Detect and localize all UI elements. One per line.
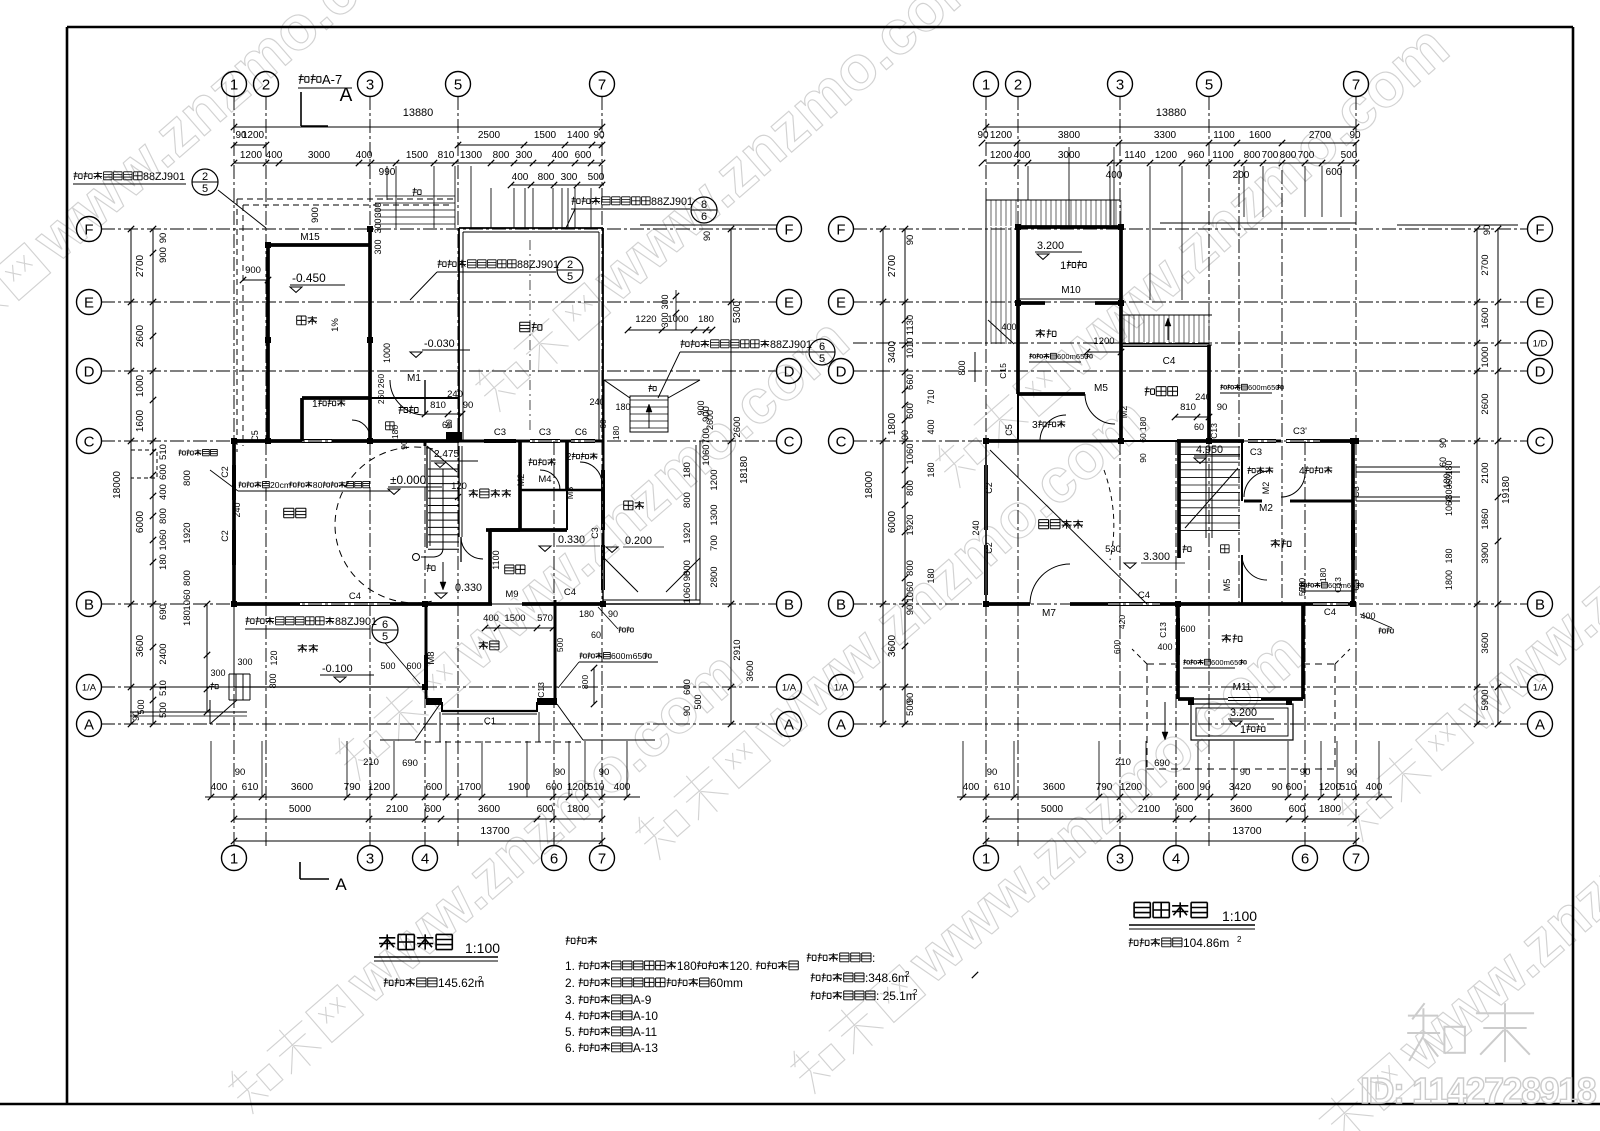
svg-text:500: 500 bbox=[555, 638, 565, 652]
svg-text:1/A: 1/A bbox=[782, 683, 797, 694]
svg-text:600m650: 600m650 bbox=[611, 651, 647, 661]
svg-text:400: 400 bbox=[266, 150, 283, 161]
svg-text:600: 600 bbox=[1112, 640, 1122, 654]
svg-text:300: 300 bbox=[516, 150, 533, 161]
svg-text:4.950: 4.950 bbox=[1196, 444, 1223, 456]
svg-text:B: B bbox=[1535, 596, 1545, 613]
svg-text:1010: 1010 bbox=[905, 337, 916, 358]
svg-text:800: 800 bbox=[182, 570, 193, 586]
svg-text:400: 400 bbox=[356, 150, 373, 161]
svg-text:88ZJ901: 88ZJ901 bbox=[517, 259, 559, 271]
svg-text:C: C bbox=[784, 433, 795, 450]
svg-text:420: 420 bbox=[1117, 615, 1127, 629]
svg-text:6: 6 bbox=[382, 619, 388, 631]
svg-text:5: 5 bbox=[819, 353, 825, 365]
svg-text:6: 6 bbox=[550, 850, 558, 867]
svg-text:3400: 3400 bbox=[887, 340, 898, 363]
svg-text:1300: 1300 bbox=[709, 504, 720, 525]
svg-text:0.330: 0.330 bbox=[455, 582, 482, 594]
svg-text:500: 500 bbox=[588, 172, 605, 183]
svg-text:600m650: 600m650 bbox=[1211, 658, 1242, 667]
svg-text:500: 500 bbox=[693, 694, 703, 709]
svg-text:D: D bbox=[836, 363, 847, 380]
svg-text:4: 4 bbox=[1172, 850, 1180, 867]
svg-text:C4: C4 bbox=[564, 587, 576, 598]
svg-text:M5: M5 bbox=[1222, 579, 1232, 592]
svg-text:2700: 2700 bbox=[887, 254, 898, 277]
svg-text:90: 90 bbox=[1349, 130, 1361, 141]
svg-text:1220: 1220 bbox=[635, 314, 656, 325]
svg-text:1060: 1060 bbox=[158, 529, 169, 550]
svg-text:1200: 1200 bbox=[242, 130, 265, 141]
svg-text:3: 3 bbox=[1116, 850, 1124, 867]
svg-text:C13: C13 bbox=[1333, 577, 1343, 593]
svg-text:0.330: 0.330 bbox=[558, 534, 585, 546]
svg-text:M4: M4 bbox=[538, 474, 551, 485]
svg-text:90: 90 bbox=[1347, 767, 1358, 778]
svg-text:60: 60 bbox=[1438, 457, 1448, 467]
svg-text:500: 500 bbox=[380, 661, 395, 671]
svg-text:1: 1 bbox=[1060, 260, 1066, 272]
svg-text:D: D bbox=[1535, 363, 1546, 380]
svg-text:3.: 3. bbox=[565, 993, 575, 1007]
svg-text:210: 210 bbox=[363, 757, 379, 768]
svg-text:400: 400 bbox=[963, 782, 980, 793]
svg-text:1200: 1200 bbox=[368, 782, 391, 793]
svg-text:2100: 2100 bbox=[1480, 462, 1491, 483]
svg-text:3420: 3420 bbox=[1229, 782, 1252, 793]
svg-text:C: C bbox=[1535, 433, 1546, 450]
svg-text:5: 5 bbox=[567, 271, 573, 283]
svg-text:2: 2 bbox=[913, 988, 918, 997]
svg-text:C: C bbox=[836, 433, 847, 450]
svg-text:1200: 1200 bbox=[1120, 782, 1143, 793]
svg-text:1060: 1060 bbox=[905, 581, 916, 602]
svg-text:13700: 13700 bbox=[1232, 825, 1261, 837]
svg-text:2600: 2600 bbox=[705, 410, 715, 430]
svg-text:3900: 3900 bbox=[1480, 542, 1491, 563]
svg-text:6: 6 bbox=[1301, 850, 1309, 867]
svg-text:3.300: 3.300 bbox=[1143, 551, 1170, 563]
svg-text:1: 1 bbox=[312, 399, 318, 410]
svg-text:2: 2 bbox=[478, 975, 483, 984]
svg-text:1300: 1300 bbox=[460, 150, 483, 161]
svg-text:M1: M1 bbox=[407, 373, 421, 384]
svg-text:600: 600 bbox=[537, 804, 554, 815]
svg-text:610: 610 bbox=[242, 782, 259, 793]
svg-text:1200: 1200 bbox=[990, 130, 1013, 141]
svg-text:2500: 2500 bbox=[478, 130, 501, 141]
svg-text:3800: 3800 bbox=[1058, 130, 1081, 141]
svg-text:790: 790 bbox=[1096, 782, 1113, 793]
svg-text:13880: 13880 bbox=[403, 107, 434, 119]
svg-text:88ZJ901: 88ZJ901 bbox=[770, 339, 812, 351]
svg-text:400: 400 bbox=[614, 782, 631, 793]
svg-text:±0.000: ±0.000 bbox=[390, 473, 427, 487]
svg-text:1600: 1600 bbox=[1480, 307, 1491, 328]
svg-text:300: 300 bbox=[373, 218, 383, 233]
svg-text:1/A: 1/A bbox=[1533, 683, 1548, 694]
svg-text:180: 180 bbox=[1442, 473, 1452, 488]
svg-text:2800: 2800 bbox=[709, 566, 720, 587]
svg-text:90: 90 bbox=[1438, 438, 1448, 448]
svg-text:6.: 6. bbox=[565, 1041, 575, 1055]
svg-text:90: 90 bbox=[599, 767, 610, 778]
svg-text:900: 900 bbox=[245, 265, 261, 276]
svg-text:3300: 3300 bbox=[1154, 130, 1177, 141]
svg-text:3: 3 bbox=[1116, 76, 1124, 93]
svg-text:90: 90 bbox=[682, 571, 693, 582]
svg-text:A-10: A-10 bbox=[633, 1009, 658, 1023]
svg-text:C2: C2 bbox=[220, 466, 230, 478]
svg-text:M2: M2 bbox=[516, 474, 526, 487]
svg-text:1/A: 1/A bbox=[82, 683, 97, 694]
svg-text:90: 90 bbox=[1138, 453, 1148, 463]
svg-text:3: 3 bbox=[366, 850, 374, 867]
svg-text:1200: 1200 bbox=[990, 150, 1013, 161]
svg-text:1200: 1200 bbox=[709, 469, 720, 490]
svg-text:90: 90 bbox=[444, 419, 454, 429]
svg-text:400: 400 bbox=[158, 484, 169, 500]
svg-text:2400: 2400 bbox=[158, 643, 169, 664]
svg-text:800: 800 bbox=[538, 172, 555, 183]
svg-text:600: 600 bbox=[1177, 804, 1194, 815]
svg-text:800: 800 bbox=[1244, 150, 1261, 161]
svg-text:1100: 1100 bbox=[1213, 130, 1235, 141]
svg-text:570: 570 bbox=[537, 613, 553, 624]
svg-text:180: 180 bbox=[615, 402, 630, 412]
svg-text:120: 120 bbox=[269, 650, 279, 665]
svg-text:A-9: A-9 bbox=[633, 993, 652, 1007]
svg-text:700: 700 bbox=[1262, 150, 1279, 161]
svg-text:F: F bbox=[836, 221, 845, 238]
svg-text:C13: C13 bbox=[536, 682, 546, 698]
svg-text:90: 90 bbox=[905, 235, 916, 246]
svg-text:-0.450: -0.450 bbox=[292, 271, 326, 285]
svg-text:2700: 2700 bbox=[135, 254, 146, 277]
svg-text:2: 2 bbox=[1014, 76, 1022, 93]
svg-text:600: 600 bbox=[546, 782, 563, 793]
svg-text:1200: 1200 bbox=[1093, 336, 1114, 347]
svg-text:3600: 3600 bbox=[1230, 804, 1253, 815]
svg-text:400: 400 bbox=[1366, 782, 1383, 793]
svg-text:210: 210 bbox=[1115, 757, 1131, 768]
svg-text:180: 180 bbox=[926, 568, 936, 583]
svg-text:18000: 18000 bbox=[112, 471, 123, 499]
svg-text:90: 90 bbox=[905, 605, 916, 616]
svg-text:800: 800 bbox=[905, 480, 916, 496]
svg-text:C: C bbox=[84, 433, 95, 450]
svg-text:90: 90 bbox=[1217, 402, 1228, 413]
svg-text:60: 60 bbox=[1194, 422, 1204, 432]
svg-text:1000: 1000 bbox=[382, 343, 392, 363]
svg-text:240: 240 bbox=[232, 502, 242, 517]
svg-text:M7: M7 bbox=[1042, 608, 1056, 619]
svg-text:M2: M2 bbox=[1259, 503, 1273, 514]
svg-text:B: B bbox=[84, 596, 94, 613]
svg-text:19180: 19180 bbox=[1501, 476, 1512, 504]
svg-text:180: 180 bbox=[1444, 548, 1454, 563]
svg-text:1800: 1800 bbox=[567, 804, 590, 815]
svg-text:400: 400 bbox=[211, 782, 228, 793]
svg-text:60: 60 bbox=[598, 419, 608, 429]
svg-text:E: E bbox=[84, 294, 94, 311]
svg-text:88ZJ901: 88ZJ901 bbox=[335, 616, 377, 628]
svg-text:1000: 1000 bbox=[135, 374, 146, 397]
svg-text:3600: 3600 bbox=[745, 660, 756, 681]
svg-text:D: D bbox=[784, 363, 795, 380]
svg-text:M2: M2 bbox=[1119, 406, 1129, 419]
svg-text:90: 90 bbox=[399, 440, 409, 450]
svg-text:900: 900 bbox=[158, 247, 169, 263]
svg-text:800: 800 bbox=[957, 360, 967, 375]
svg-text:20cm: 20cm bbox=[270, 480, 291, 490]
svg-text:1860: 1860 bbox=[1480, 508, 1491, 529]
svg-text:1920: 1920 bbox=[182, 522, 193, 543]
svg-text:1130: 1130 bbox=[905, 315, 916, 335]
svg-text:600: 600 bbox=[905, 403, 916, 419]
svg-text:1%: 1% bbox=[330, 318, 341, 332]
svg-text:3: 3 bbox=[1032, 420, 1038, 431]
svg-text:3600: 3600 bbox=[291, 782, 314, 793]
svg-text:A: A bbox=[335, 875, 347, 894]
svg-text:104.86m: 104.86m bbox=[1183, 936, 1229, 950]
svg-text:5: 5 bbox=[1205, 76, 1213, 93]
svg-text:300: 300 bbox=[373, 202, 383, 217]
svg-text:600: 600 bbox=[575, 150, 592, 161]
svg-text:1100: 1100 bbox=[1212, 150, 1234, 161]
svg-text:1000: 1000 bbox=[1480, 346, 1491, 367]
svg-text:5: 5 bbox=[454, 76, 462, 93]
svg-text:6: 6 bbox=[819, 341, 825, 353]
svg-text:800: 800 bbox=[580, 675, 590, 689]
svg-text:180: 180 bbox=[158, 554, 169, 570]
svg-text:C3: C3 bbox=[1351, 579, 1361, 591]
svg-text:C4: C4 bbox=[1324, 607, 1336, 618]
svg-text:2700: 2700 bbox=[1480, 254, 1491, 275]
svg-text:F: F bbox=[84, 221, 93, 238]
svg-text:C3': C3' bbox=[1293, 426, 1307, 437]
svg-text:2: 2 bbox=[262, 76, 270, 93]
svg-text:1800: 1800 bbox=[1444, 570, 1454, 590]
svg-text:1: 1 bbox=[982, 76, 990, 93]
svg-text:C4: C4 bbox=[1163, 356, 1176, 367]
svg-text:4: 4 bbox=[1299, 466, 1305, 477]
svg-text:4: 4 bbox=[421, 850, 429, 867]
svg-text:90: 90 bbox=[1199, 782, 1211, 793]
svg-text:300: 300 bbox=[561, 172, 578, 183]
svg-text:1800: 1800 bbox=[887, 412, 898, 435]
svg-text:1140: 1140 bbox=[1124, 150, 1146, 161]
svg-text:1920: 1920 bbox=[905, 514, 916, 535]
svg-text:1000: 1000 bbox=[667, 314, 688, 325]
svg-text:1: 1 bbox=[1240, 724, 1246, 736]
svg-text:1060: 1060 bbox=[182, 589, 193, 610]
svg-text:88ZJ901: 88ZJ901 bbox=[143, 171, 185, 183]
svg-text:80: 80 bbox=[313, 480, 323, 490]
svg-text:F: F bbox=[784, 221, 793, 238]
svg-text:1060: 1060 bbox=[701, 444, 712, 465]
svg-text:6000: 6000 bbox=[135, 510, 146, 533]
svg-text:90: 90 bbox=[682, 706, 693, 717]
svg-text:690: 690 bbox=[402, 758, 418, 769]
svg-text:570: 570 bbox=[1297, 582, 1307, 596]
svg-text:C2: C2 bbox=[984, 482, 994, 494]
svg-text:C3: C3 bbox=[1351, 486, 1361, 498]
svg-text:610: 610 bbox=[994, 782, 1011, 793]
svg-text:180: 180 bbox=[611, 426, 621, 440]
svg-text:500: 500 bbox=[158, 702, 169, 718]
svg-text:C4: C4 bbox=[349, 591, 361, 602]
svg-text:2: 2 bbox=[567, 259, 573, 271]
svg-text:1100: 1100 bbox=[491, 550, 501, 569]
svg-text:180: 180 bbox=[926, 462, 936, 477]
svg-text:400: 400 bbox=[1157, 642, 1172, 652]
svg-text:800: 800 bbox=[182, 470, 193, 486]
svg-text:240: 240 bbox=[1195, 392, 1211, 403]
svg-text:3600: 3600 bbox=[1480, 632, 1491, 653]
svg-text:260: 260 bbox=[376, 374, 386, 388]
svg-text:A-11: A-11 bbox=[633, 1025, 658, 1039]
svg-text:400: 400 bbox=[1001, 322, 1016, 332]
svg-text:400: 400 bbox=[483, 613, 499, 624]
svg-text:M9: M9 bbox=[505, 589, 518, 600]
svg-text:2.: 2. bbox=[565, 976, 575, 990]
svg-text:2910: 2910 bbox=[732, 639, 743, 660]
svg-text:5900: 5900 bbox=[1480, 689, 1491, 710]
svg-text:1200: 1200 bbox=[240, 150, 263, 161]
svg-text:1200: 1200 bbox=[1319, 782, 1342, 793]
svg-text:C15: C15 bbox=[998, 363, 1008, 379]
svg-text:700: 700 bbox=[1298, 150, 1315, 161]
svg-text:810: 810 bbox=[430, 400, 446, 411]
svg-text:2: 2 bbox=[1237, 935, 1242, 944]
svg-text:1:100: 1:100 bbox=[1222, 908, 1257, 924]
svg-text:5: 5 bbox=[382, 631, 388, 643]
svg-text:D: D bbox=[84, 363, 95, 380]
svg-text:690: 690 bbox=[1154, 758, 1170, 769]
svg-text:C1: C1 bbox=[484, 716, 496, 727]
svg-text:7: 7 bbox=[598, 850, 606, 867]
svg-text:90: 90 bbox=[555, 767, 566, 778]
svg-text:M5: M5 bbox=[1094, 383, 1108, 394]
svg-text:960: 960 bbox=[1188, 150, 1205, 161]
svg-text:510: 510 bbox=[588, 782, 605, 793]
svg-text:M10: M10 bbox=[1061, 285, 1081, 296]
svg-text:1/A: 1/A bbox=[834, 683, 849, 694]
svg-text:6: 6 bbox=[701, 211, 707, 223]
svg-text:E: E bbox=[784, 294, 794, 311]
svg-text:120: 120 bbox=[451, 481, 467, 492]
svg-text:800: 800 bbox=[268, 673, 278, 688]
svg-text:900: 900 bbox=[310, 207, 321, 223]
svg-text:1400: 1400 bbox=[567, 130, 590, 141]
svg-text:18180: 18180 bbox=[739, 456, 750, 484]
svg-text:2600: 2600 bbox=[135, 324, 146, 347]
svg-text:C13: C13 bbox=[1158, 622, 1168, 638]
svg-text:A: A bbox=[784, 716, 794, 733]
svg-text:240: 240 bbox=[589, 397, 604, 407]
svg-text:C3: C3 bbox=[539, 427, 551, 438]
svg-text:3.200: 3.200 bbox=[1037, 240, 1064, 252]
svg-text:7: 7 bbox=[1352, 76, 1360, 93]
svg-text:5000: 5000 bbox=[1041, 804, 1064, 815]
svg-text:2700: 2700 bbox=[1309, 130, 1332, 141]
svg-text:1500: 1500 bbox=[504, 613, 525, 624]
svg-text:1500: 1500 bbox=[406, 150, 429, 161]
svg-text:C3: C3 bbox=[494, 427, 506, 438]
svg-text:240: 240 bbox=[971, 520, 981, 535]
svg-text:C2: C2 bbox=[220, 530, 230, 542]
svg-text:800: 800 bbox=[1280, 150, 1297, 161]
svg-text:1500: 1500 bbox=[534, 130, 557, 141]
svg-text:1/D: 1/D bbox=[1533, 339, 1548, 350]
svg-text:90: 90 bbox=[463, 400, 474, 411]
svg-text:600: 600 bbox=[158, 464, 169, 480]
svg-text:3600: 3600 bbox=[478, 804, 501, 815]
svg-text:1060: 1060 bbox=[1444, 496, 1454, 516]
svg-text:M11: M11 bbox=[1233, 682, 1252, 693]
svg-text:1600: 1600 bbox=[135, 409, 146, 432]
svg-text:90: 90 bbox=[702, 231, 712, 241]
svg-text:810: 810 bbox=[1180, 402, 1196, 413]
svg-text:2100: 2100 bbox=[386, 804, 409, 815]
svg-text:3600: 3600 bbox=[135, 634, 146, 657]
svg-text:600: 600 bbox=[682, 679, 693, 695]
svg-text:400: 400 bbox=[926, 419, 936, 434]
svg-text:M15: M15 bbox=[300, 232, 320, 243]
svg-text:2: 2 bbox=[202, 171, 208, 183]
svg-text:1920: 1920 bbox=[682, 522, 693, 543]
svg-text:1.: 1. bbox=[565, 959, 575, 973]
svg-text:A-13: A-13 bbox=[633, 1041, 658, 1055]
svg-text:7: 7 bbox=[598, 76, 606, 93]
svg-text:180: 180 bbox=[682, 462, 693, 478]
svg-text:2600: 2600 bbox=[732, 416, 743, 437]
svg-text:300: 300 bbox=[210, 668, 225, 678]
svg-text:3600: 3600 bbox=[1043, 782, 1066, 793]
svg-text:60: 60 bbox=[591, 630, 601, 640]
svg-text:F: F bbox=[1535, 221, 1544, 238]
svg-text:2100: 2100 bbox=[1138, 804, 1161, 815]
svg-text:600: 600 bbox=[425, 804, 442, 815]
svg-text::: : bbox=[872, 951, 875, 965]
svg-text:6000: 6000 bbox=[887, 510, 898, 533]
svg-text:M2: M2 bbox=[1261, 482, 1271, 495]
svg-text:C3: C3 bbox=[590, 527, 600, 539]
svg-text:7: 7 bbox=[1352, 850, 1360, 867]
svg-text:M8: M8 bbox=[426, 651, 437, 664]
svg-text:500: 500 bbox=[905, 700, 916, 716]
svg-text:400: 400 bbox=[512, 172, 529, 183]
svg-text:C5: C5 bbox=[1004, 424, 1014, 436]
svg-text:90: 90 bbox=[235, 767, 246, 778]
svg-text:120.: 120. bbox=[729, 959, 752, 973]
svg-text:2600: 2600 bbox=[1480, 393, 1491, 414]
svg-text:60mm: 60mm bbox=[710, 976, 743, 990]
svg-text:800: 800 bbox=[905, 560, 916, 576]
svg-text:400: 400 bbox=[552, 150, 569, 161]
svg-text:180: 180 bbox=[1318, 568, 1328, 582]
svg-text:B: B bbox=[836, 596, 846, 613]
svg-text:3600: 3600 bbox=[887, 634, 898, 657]
svg-text:E: E bbox=[1535, 294, 1545, 311]
svg-text:660: 660 bbox=[905, 374, 916, 390]
svg-text:C2: C2 bbox=[984, 542, 994, 554]
svg-text:C4: C4 bbox=[1138, 590, 1150, 601]
svg-text:510: 510 bbox=[158, 444, 169, 460]
svg-text:B: B bbox=[784, 596, 794, 613]
